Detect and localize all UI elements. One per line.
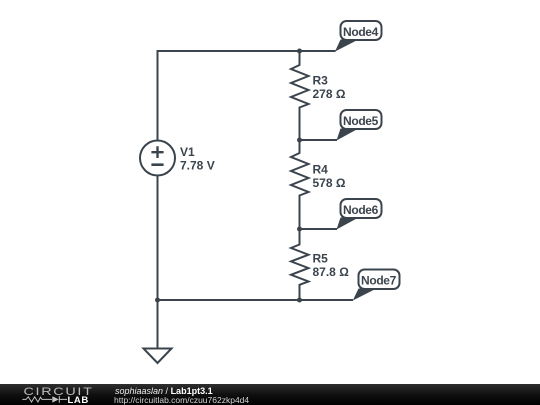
svg-text:7.78 V: 7.78 V: [180, 159, 215, 173]
node flag Node7: [353, 270, 400, 301]
svg-text:R5: R5: [313, 252, 329, 266]
junction node between R3 and R4: [297, 138, 302, 143]
svg-text:R3: R3: [313, 74, 329, 88]
svg-text:87.8 Ω: 87.8 Ω: [313, 265, 350, 279]
svg-text:Node6: Node6: [343, 203, 379, 217]
label R4 578 Ω: [313, 163, 346, 191]
wire: left branch bottom vertical (V1 bottom to bottom-left corner): [157, 176, 159, 301]
resistor R5: [291, 229, 309, 300]
label R5 87.8 Ω: [313, 252, 350, 280]
CircuitLab logo mini-schematic (resistor + diode wire): [22, 396, 67, 403]
wire: bottom horizontal: [158, 299, 354, 301]
footer bar: [0, 384, 540, 405]
svg-text:278 Ω: 278 Ω: [313, 87, 346, 101]
svg-text:http://circuitlab.com/czuu762z: http://circuitlab.com/czuu762zkp4d4: [114, 395, 249, 405]
svg-text:Node7: Node7: [361, 274, 397, 288]
junction node at bottom left: [155, 298, 160, 303]
ground: [144, 349, 172, 364]
label R3 278 Ω: [313, 74, 346, 102]
resistor R4: [291, 140, 309, 229]
wire: left branch top vertical (top-left corner down to V1 top): [158, 51, 336, 141]
node flag Node5: [337, 110, 382, 141]
svg-text:Node5: Node5: [343, 114, 379, 128]
label V1 7.78 V: [180, 145, 215, 173]
wire: Node6 stub: [300, 228, 338, 230]
svg-text:578 Ω: 578 Ω: [313, 176, 346, 190]
node flag Node6: [337, 199, 382, 230]
junction node at top of R3: [297, 49, 302, 54]
junction node at bottom of R5: [297, 298, 302, 303]
svg-text:LAB: LAB: [68, 395, 89, 405]
voltage source V1: [140, 141, 175, 176]
resistor R3: [291, 51, 309, 140]
svg-text:Node4: Node4: [343, 25, 379, 39]
junction node between R4 and R5: [297, 227, 302, 232]
svg-text:V1: V1: [180, 145, 195, 159]
node flag Node4: [335, 21, 382, 52]
wire: Node5 stub: [300, 139, 338, 141]
svg-text:R4: R4: [313, 163, 329, 177]
wire: ground stem: [157, 300, 159, 349]
